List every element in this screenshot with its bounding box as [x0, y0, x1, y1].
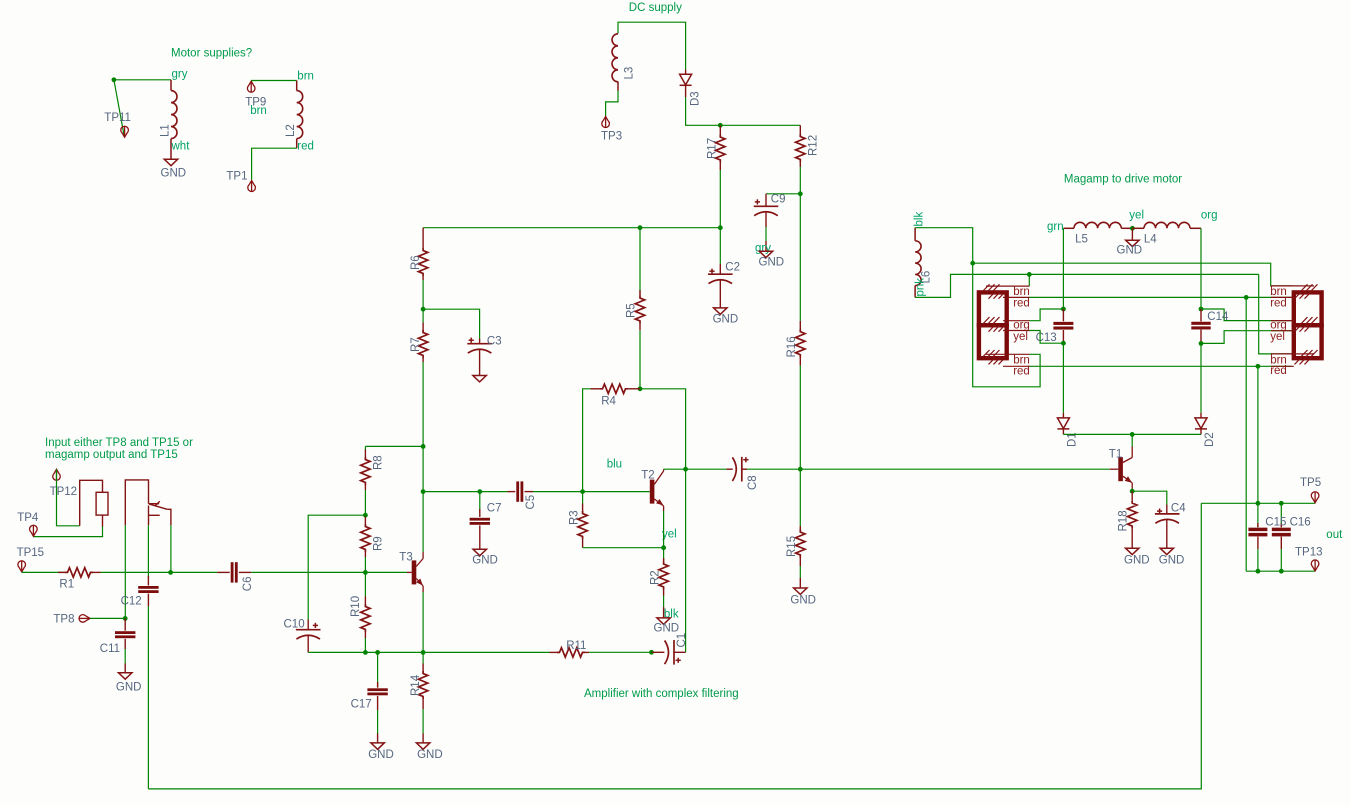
capacitor C8 polarized horizontal [727, 468, 733, 470]
svg-text:R15: R15 [786, 536, 798, 557]
wire R4 right to T2 collector column [640, 389, 686, 653]
capacitor C1 polarized horizontal [652, 651, 665, 653]
svg-text:red: red [297, 141, 314, 153]
ground below C2 [714, 308, 727, 314]
svg-text:brn: brn [250, 105, 267, 117]
svg-text:C15 C16: C15 C16 [1265, 517, 1310, 529]
capacitor C7 [479, 492, 481, 513]
svg-text:C6: C6 [242, 576, 254, 591]
ground below C7 [473, 549, 486, 555]
svg-text:TP8: TP8 [53, 614, 74, 626]
wire TP12 down-right [57, 469, 80, 526]
junction red-bottom to output [1256, 364, 1261, 369]
resistor R1 [58, 571, 65, 573]
svg-text:red: red [1270, 297, 1287, 309]
svg-text:Magamp to drive motor: Magamp to drive motor [1064, 174, 1182, 186]
svg-text:GND: GND [116, 682, 142, 694]
svg-text:red: red [1013, 365, 1030, 377]
ground below C4 [1160, 548, 1173, 554]
wire R3 bottom to emitter node [583, 547, 664, 549]
ground below R18 [1126, 548, 1139, 554]
svg-text:magamp output and TP15: magamp output and TP15 [45, 449, 178, 461]
capacitor C9 polarized [765, 194, 767, 207]
wire C12 bottom down to feedback rail [147, 606, 149, 789]
wire D3 to R17/R12 rail [686, 97, 801, 125]
capacitor C16 [1280, 503, 1282, 527]
svg-text:R11: R11 [566, 640, 586, 652]
svg-text:out: out [1326, 529, 1343, 541]
inductor L3 [617, 82, 619, 91]
capacitor C17 [377, 652, 379, 687]
resistor R16 [799, 321, 801, 332]
svg-text:GND: GND [713, 313, 739, 325]
capacitor C15 [1257, 503, 1259, 527]
wire T2 emitter down [663, 511, 665, 562]
svg-text:blk: blk [914, 212, 926, 227]
junction C14 bottom [1199, 341, 1204, 346]
inductor L6 [914, 228, 916, 298]
wire R17 bottom to rail [719, 170, 721, 228]
wire L3 bottom to TP3 [606, 91, 618, 117]
wire C6 to amplifier input node [251, 571, 365, 573]
svg-text:R3: R3 [568, 510, 580, 525]
svg-text:Input either TP8 and TP15 or: Input either TP8 and TP15 or [45, 437, 193, 449]
ground below L4/L5 junction [1131, 228, 1133, 240]
transistor T3 [412, 560, 417, 584]
wire L2 bottom to TP1 [252, 148, 297, 180]
resistor R10 [364, 572, 366, 596]
wire grn column from L5 left [1062, 228, 1064, 309]
junction C2 tap [718, 225, 723, 230]
wire T2 collector to C8 [664, 468, 727, 470]
transformer TR-left terminal stubs [986, 286, 1030, 366]
svg-text:TP12: TP12 [50, 486, 78, 498]
wire TP15 to R1 [22, 571, 65, 573]
resistor R11 [550, 651, 560, 653]
svg-text:C11: C11 [100, 643, 120, 655]
wire main supply rail y=228 [423, 227, 720, 229]
wire diagonal to TP11 [114, 80, 125, 137]
capacitor C11 [124, 618, 126, 630]
capacitor C3 polarized [479, 339, 481, 344]
svg-text:TP3: TP3 [601, 131, 622, 143]
svg-text:yel: yel [662, 529, 677, 541]
junction C9 tap [798, 191, 803, 196]
wire red-top column down to lower output wire [1245, 297, 1247, 571]
resistor R3 [582, 492, 584, 504]
svg-text:gry: gry [172, 68, 188, 80]
wire fuse bottom to TP4 wire [33, 527, 102, 537]
junction R5 top [638, 225, 643, 230]
svg-text:TP15: TP15 [17, 547, 44, 559]
capacitor C10 polarized [307, 620, 309, 630]
wire yel-left jog to C13 bottom [1030, 331, 1064, 344]
wire R9 bottom to input node [364, 557, 366, 572]
ground below R15 [794, 588, 807, 594]
resistor R17 [719, 125, 721, 134]
svg-text:R9: R9 [373, 536, 385, 551]
wire feedback bottom rail [148, 503, 1201, 789]
test point TP12 [53, 469, 61, 480]
svg-text:TP11: TP11 [104, 112, 131, 124]
svg-text:yel: yel [1013, 331, 1028, 343]
wire R4 left leg down to base node [583, 389, 591, 492]
ground below C11 [119, 673, 132, 679]
transformer TR-left core [979, 292, 1007, 358]
svg-text:brn: brn [1270, 286, 1287, 298]
svg-text:red: red [1270, 365, 1287, 377]
wire collector node to C5 [423, 491, 507, 493]
svg-text:R12: R12 [808, 135, 820, 156]
svg-text:GND: GND [368, 749, 394, 761]
fuse/jumper rectangle component [80, 480, 108, 526]
wire switch left leg down to TP8 node [124, 525, 126, 618]
wire T3 collector up [422, 446, 424, 552]
diode D2 [1200, 413, 1202, 418]
wire C9 jog [766, 193, 800, 195]
wire to C3 [423, 309, 480, 338]
junction at R17 top [718, 123, 723, 128]
svg-text:R4: R4 [601, 395, 616, 407]
svg-text:Motor supplies?: Motor supplies? [171, 48, 252, 60]
resistor R14 [422, 652, 424, 663]
junction node at L1/TP11 [112, 77, 117, 82]
svg-text:org: org [1013, 320, 1030, 332]
wire blk row to right transformer brn top [973, 263, 1292, 286]
svg-text:R8: R8 [373, 455, 385, 470]
capacitor C14 [1200, 309, 1202, 321]
svg-text:R17: R17 [707, 138, 719, 159]
svg-text:org: org [1270, 320, 1287, 332]
svg-text:L3: L3 [624, 67, 636, 80]
wire upper output [1201, 502, 1315, 504]
svg-text:R16: R16 [786, 336, 798, 357]
resistor R8 [364, 446, 366, 449]
junction T1 collector [1130, 432, 1135, 437]
wire org-right jog to C14 node [1201, 309, 1292, 321]
svg-text:C3: C3 [487, 336, 502, 348]
svg-text:T2: T2 [641, 470, 654, 482]
transistor T1 [1131, 434, 1133, 446]
svg-text:brn: brn [297, 71, 314, 83]
svg-text:TP1: TP1 [226, 171, 247, 183]
capacitor C5 [508, 491, 516, 493]
svg-text:brn: brn [1013, 286, 1030, 298]
svg-text:red: red [1013, 297, 1030, 309]
svg-text:R6: R6 [410, 255, 422, 270]
wire switch middle leg down to C12 [147, 525, 149, 578]
ground below R14 [416, 743, 429, 749]
inductor L4 [1132, 227, 1144, 229]
wire R1 to C6 [101, 571, 218, 573]
wire emitter node to C4 [1132, 491, 1167, 504]
wire R11 to C1 [589, 651, 652, 653]
svg-text:L2: L2 [285, 124, 297, 137]
test point TP11 [121, 126, 129, 137]
wire R6 bottom junction [422, 280, 424, 309]
svg-text:L5: L5 [1075, 233, 1088, 245]
wire org-left jog to C13 node [1030, 309, 1064, 321]
svg-text:R5: R5 [625, 303, 637, 318]
resistor R12 [799, 125, 801, 134]
wire bottom node to R11 [365, 651, 549, 653]
wire org column from L4 right [1200, 228, 1202, 309]
svg-text:yel: yel [1129, 209, 1144, 221]
svg-text:C14: C14 [1207, 311, 1229, 323]
wire TP8 to C11 node [90, 617, 125, 619]
capacitor C13 [1062, 309, 1064, 321]
svg-text:C9: C9 [771, 193, 786, 205]
svg-text:C4: C4 [1171, 503, 1186, 515]
svg-text:C12: C12 [121, 596, 142, 608]
svg-text:TP5: TP5 [1300, 477, 1321, 489]
wire left transformer brn top up to pnk row [1028, 274, 1030, 286]
wire to R8 top [365, 445, 423, 447]
test point TP13 [1311, 560, 1319, 571]
svg-text:L4: L4 [1144, 233, 1157, 245]
junction C13 top [1061, 307, 1066, 312]
wire L6 top blk run [915, 228, 973, 264]
junction bottom node at R10 [363, 650, 368, 655]
resistor R5 [639, 228, 641, 296]
diode D1 [1062, 413, 1064, 418]
test point TP15 [18, 561, 26, 572]
svg-text:TP13: TP13 [1295, 547, 1323, 559]
resistor R4 [628, 388, 640, 390]
resistor R7 [422, 309, 424, 322]
wire TP9 to L2 top [251, 80, 297, 82]
test point TP9 [247, 81, 255, 92]
svg-text:blk: blk [664, 609, 679, 621]
svg-text:C10: C10 [284, 619, 305, 631]
junction C13 bottom [1061, 341, 1066, 346]
transformer TR-right terminal stubs [1271, 286, 1314, 366]
wire R12 bottom down to R16 [799, 167, 801, 321]
capacitor C2 polarized [719, 264, 721, 274]
junction switch leg at input wire [168, 570, 173, 575]
transformer TR-right winding hatches [1295, 284, 1318, 364]
svg-text:GND: GND [1159, 555, 1185, 567]
wire C2 pin from rail [719, 228, 721, 264]
svg-text:org: org [1201, 209, 1218, 221]
wire blk branch down to left transformer brn bottom [973, 263, 1040, 387]
svg-text:T1: T1 [1109, 448, 1122, 460]
test point TP3 [602, 117, 610, 128]
wire L6 bottom pnk run [915, 274, 1259, 297]
wire red-bottom column down to upper output wire [1257, 366, 1259, 503]
svg-text:L1: L1 [160, 124, 172, 137]
svg-text:R1: R1 [59, 579, 74, 591]
svg-text:C1: C1 [676, 633, 688, 648]
svg-text:GND: GND [417, 749, 443, 761]
svg-text:GND: GND [1117, 245, 1143, 257]
svg-text:GND: GND [654, 622, 680, 634]
junction at C7 [477, 489, 482, 494]
wire yel-right jog to C14 bottom [1201, 331, 1292, 344]
wire C8 node down to R15 [799, 469, 801, 526]
wire R10 bottom [364, 638, 366, 652]
junction blk node [970, 261, 975, 266]
svg-text:R14: R14 [410, 674, 422, 696]
test point TP8 [79, 615, 90, 623]
svg-text:T3: T3 [399, 552, 412, 564]
junction at C1 [649, 650, 654, 655]
junction L4/L5 GND [1130, 226, 1135, 231]
wire switch right leg down to input wire [170, 525, 172, 572]
wire C5 to R3/T2 base [533, 491, 650, 493]
svg-text:pnk: pnk [915, 278, 927, 297]
resistor R9 [364, 515, 366, 516]
svg-text:TP4: TP4 [17, 512, 39, 524]
wire lower output [1246, 570, 1315, 572]
resistor R6 [422, 228, 424, 248]
wire R8 bottom junction [364, 490, 366, 515]
svg-text:Amplifier with complex filteri: Amplifier with complex filtering [584, 688, 739, 700]
svg-text:C8: C8 [747, 475, 759, 490]
wire T3 base [365, 571, 407, 573]
wire red-top row between transformers [1030, 296, 1292, 298]
svg-text:R18: R18 [1118, 510, 1130, 531]
wire pnk down to right transformer brn bottom [1259, 274, 1292, 354]
resistor R18 [1131, 491, 1133, 500]
svg-text:GND: GND [161, 168, 187, 180]
transformer TR-right core [1294, 292, 1322, 358]
svg-text:C5: C5 [525, 495, 537, 510]
svg-text:C2: C2 [725, 261, 740, 273]
svg-text:GND: GND [790, 595, 816, 607]
inductor L1 [170, 80, 172, 160]
wire junction to L1 top [114, 79, 171, 81]
resistor R2 [663, 558, 665, 562]
svg-text:D3: D3 [690, 91, 702, 106]
wire C14 bottom down to D2 [1200, 343, 1202, 413]
switch symbol [125, 480, 171, 525]
wire R16 bottom to C8 node [799, 366, 801, 470]
wire C13 bottom down to D1 [1062, 343, 1064, 413]
svg-text:R7: R7 [410, 337, 422, 352]
svg-text:GND: GND [759, 257, 785, 269]
wire D1 to D2 [1063, 433, 1201, 435]
junction bottom node at C17 [375, 650, 380, 655]
wire red-bottom row between transformers [1030, 365, 1292, 367]
svg-text:grn: grn [1047, 221, 1064, 233]
capacitor C6 [217, 571, 230, 573]
ground below C9 [759, 251, 772, 257]
junction red-top to output [1244, 295, 1249, 300]
test point TP5 [1311, 492, 1319, 503]
wire R7 bottom to T3 collector junction [422, 362, 424, 446]
wire R5 bottom to R4 junction [639, 330, 641, 389]
capacitor C4 polarized [1166, 505, 1168, 514]
svg-text:R2: R2 [650, 570, 662, 585]
svg-text:GND: GND [472, 555, 498, 567]
junction pnk to left brn-top [1027, 272, 1032, 277]
wire C10 bottom to bottom node [308, 651, 365, 653]
svg-text:wht: wht [171, 140, 191, 152]
ground below C17 [371, 743, 384, 749]
svg-text:C7: C7 [487, 503, 502, 515]
transformer TR-left winding hatches [983, 284, 1006, 364]
svg-text:yel: yel [1270, 331, 1285, 343]
svg-text:blu: blu [607, 459, 622, 471]
wire L3 top to D3 top [618, 22, 686, 69]
ground below L1 [164, 159, 177, 165]
resistor R15 [799, 526, 801, 532]
inductor L5 [1063, 227, 1074, 229]
svg-text:gry: gry [755, 242, 771, 254]
transistor T2 [650, 480, 655, 504]
wire junction to C10 branch [308, 515, 365, 619]
svg-text:D2: D2 [1204, 432, 1216, 447]
diode D3 [685, 70, 687, 75]
junction C14 top [1199, 307, 1204, 312]
svg-text:GND: GND [1124, 555, 1150, 567]
svg-text:DC supply: DC supply [629, 2, 682, 14]
wire T3 emitter down [422, 592, 424, 652]
wire C8 to T1 base [747, 468, 1110, 470]
svg-text:C17: C17 [351, 699, 372, 711]
ground below R2 [657, 618, 670, 624]
capacitor C12 [147, 576, 149, 586]
svg-text:R10: R10 [350, 596, 362, 617]
inductor L2 [296, 81, 298, 149]
junction bottom node at T3 emitter [421, 650, 426, 655]
wire T1 emitter node [1131, 489, 1133, 492]
test point TP4 [30, 525, 38, 536]
ground below C3 (no text) [473, 376, 486, 382]
test point TP1 [248, 181, 256, 192]
svg-text:C13: C13 [1036, 332, 1057, 344]
